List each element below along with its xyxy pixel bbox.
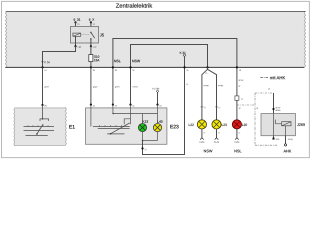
fuse S10 15A bbox=[90, 46, 92, 54]
page background bbox=[0, 0, 311, 162]
switch E23 fog light switch bbox=[86, 108, 167, 144]
junction NSL at band edge bbox=[112, 66, 114, 68]
wire fuse to E23 pin 1 bbox=[90, 67, 92, 104]
Zentralelektrik band bbox=[5, 12, 305, 68]
switch E1 light switch bbox=[14, 107, 67, 146]
label E1 bbox=[69, 125, 74, 128]
node J269 output to AHK socket bbox=[285, 136, 287, 144]
wire into E1 bbox=[42, 105, 44, 119]
label NSW bbox=[204, 150, 213, 153]
E23 pin 4 bbox=[156, 104, 158, 106]
E23 wiper bbox=[110, 123, 129, 134]
mechanical link J5 bbox=[81, 34, 90, 36]
contact of J5 bbox=[90, 32, 92, 34]
label J5 bbox=[100, 34, 104, 37]
wire into J269 bbox=[273, 93, 275, 114]
E23 off rail bbox=[107, 133, 124, 135]
coil of J5 bbox=[73, 33, 81, 36]
junction NSW at band edge bbox=[129, 66, 131, 68]
wire NSL route bbox=[113, 39, 237, 105]
wire K56 route to E1 bbox=[43, 46, 76, 67]
lamp ground join bbox=[142, 132, 144, 141]
E23 contact studs bbox=[99, 125, 101, 127]
band top edge bbox=[6, 11, 306, 13]
node 56 at E1 bbox=[41, 104, 43, 106]
wire relay coil feed bbox=[75, 22, 77, 33]
ground lead L20 bbox=[236, 129, 238, 138]
relay J269 bbox=[261, 114, 296, 136]
wire split to L23 bbox=[208, 69, 217, 120]
wire split to L22 bbox=[202, 67, 208, 119]
title Zentralelektrik bbox=[116, 3, 152, 7]
label NSW bbox=[132, 60, 140, 62]
label NSL bbox=[234, 150, 241, 153]
E23 internal wires bbox=[90, 105, 92, 127]
node K 31 bbox=[180, 52, 186, 54]
E23 contact rails bbox=[93, 126, 130, 128]
node J269 pin 31 bbox=[273, 136, 275, 139]
relay J5 bbox=[71, 27, 99, 44]
node J269 input bbox=[272, 108, 274, 110]
connector tick on L23 feed bbox=[215, 106, 218, 108]
node KL 58b bbox=[153, 88, 160, 90]
label J269 bbox=[297, 123, 305, 126]
ground lead L23 bbox=[216, 129, 218, 138]
outer frame bbox=[2, 1, 310, 157]
connector on L20 wire bbox=[235, 96, 239, 100]
junction K31 at band edge bbox=[183, 66, 185, 68]
fog lamp L23 bbox=[212, 120, 221, 129]
E1 contact studs bbox=[27, 125, 29, 126]
dashed branch to variant bbox=[237, 104, 255, 106]
band bottom edge bbox=[5, 66, 304, 68]
indicator lamp K13 bbox=[143, 120, 148, 122]
E23 pin 3 bbox=[129, 104, 131, 106]
junction K56 at band edge bbox=[41, 66, 43, 68]
relay J5 bottom pin 86 bbox=[75, 43, 77, 46]
mit AHK pointer bbox=[260, 76, 268, 78]
ground lead L22 bbox=[201, 129, 203, 138]
wire NSW route bbox=[131, 45, 208, 105]
E23 actuator bracket bbox=[124, 119, 130, 124]
coil of J269 bbox=[282, 122, 291, 126]
node 31 below E23 bbox=[141, 147, 143, 149]
fog lamp L22 bbox=[189, 124, 194, 126]
junction fuse output at band edge bbox=[90, 66, 92, 68]
E1 contact rails bbox=[24, 126, 55, 128]
rear fog lamp L20 bbox=[232, 120, 241, 129]
wire K31 ground route bbox=[143, 56, 185, 154]
connector tick on L22 feed bbox=[201, 106, 204, 108]
label NSL bbox=[114, 60, 120, 62]
E1 wiper bbox=[37, 124, 43, 134]
wire to E1 switch bbox=[42, 67, 44, 105]
E23 pin 1 bbox=[90, 104, 92, 106]
relay J5 bottom pin 87 bbox=[90, 43, 92, 46]
label AHK bbox=[284, 150, 292, 153]
label E23 bbox=[170, 125, 178, 129]
AHK variant boundary bbox=[254, 93, 256, 145]
node 6/31 relay top left terminal bbox=[74, 18, 81, 20]
wire relay contact feed bbox=[90, 22, 92, 32]
node K 56 bbox=[41, 61, 43, 63]
E23 pin 2 bbox=[112, 104, 114, 106]
wire NSL to L20 bbox=[236, 67, 238, 96]
E1 actuator bracket bbox=[40, 119, 49, 121]
illumination lamp L40 bbox=[158, 120, 163, 122]
node 6/X relay top right terminal bbox=[89, 18, 94, 20]
junction NSW split bbox=[206, 66, 208, 68]
